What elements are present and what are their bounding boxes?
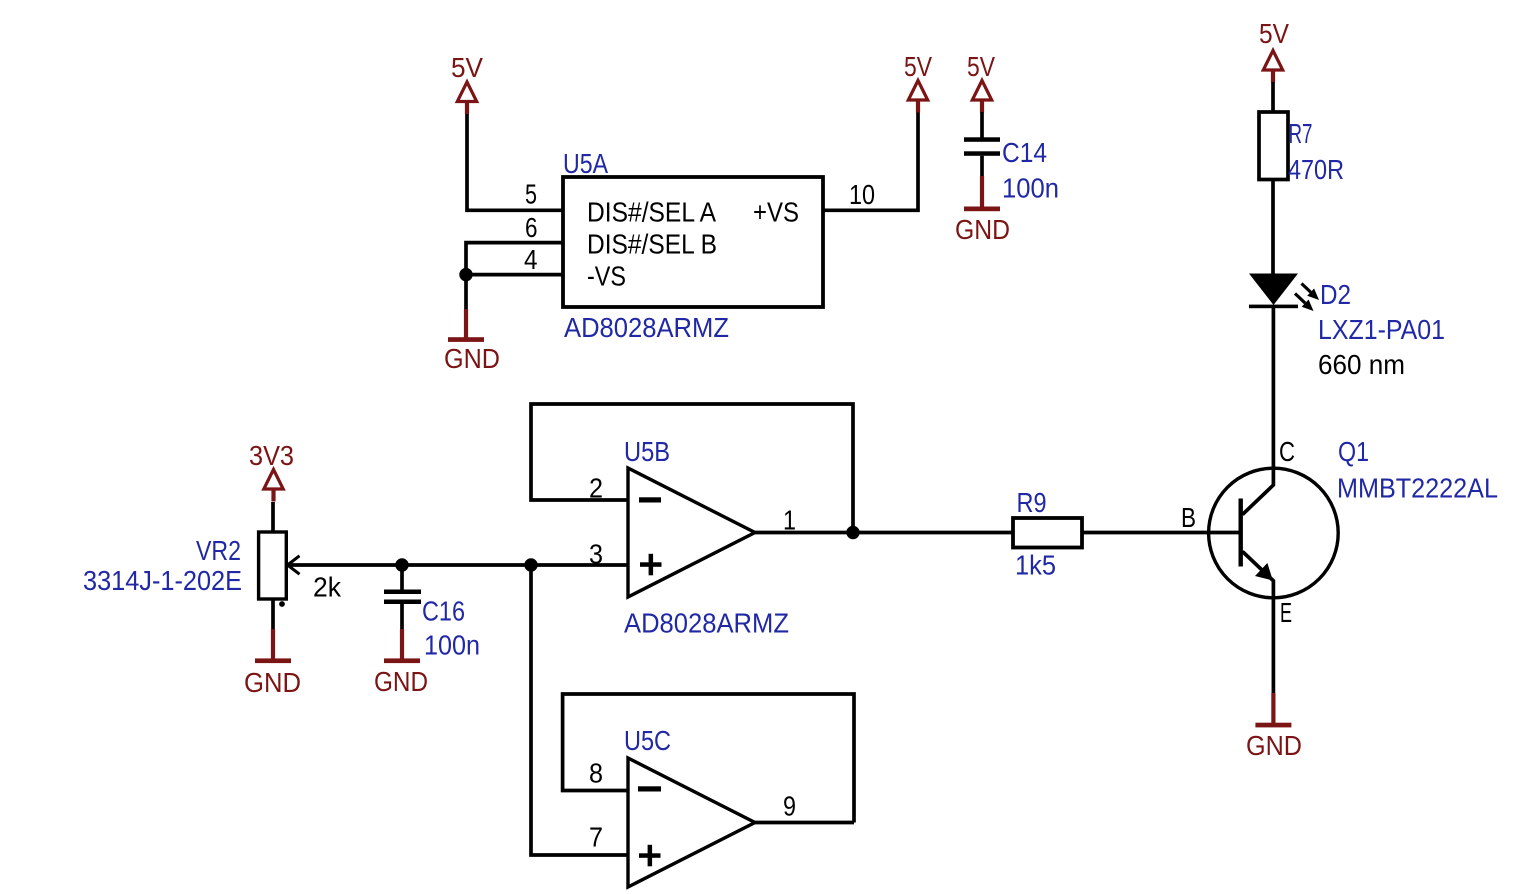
svg-text:3V3: 3V3 bbox=[249, 440, 294, 471]
svg-text:5V: 5V bbox=[451, 52, 484, 83]
svg-text:B: B bbox=[1181, 502, 1196, 533]
svg-text:-VS: -VS bbox=[587, 261, 626, 292]
svg-text:10: 10 bbox=[849, 179, 875, 210]
svg-text:2: 2 bbox=[589, 473, 603, 504]
svg-text:1k5: 1k5 bbox=[1015, 550, 1056, 581]
svg-text:E: E bbox=[1280, 597, 1292, 628]
svg-text:660 nm: 660 nm bbox=[1318, 349, 1405, 380]
svg-text:C: C bbox=[1279, 436, 1295, 467]
svg-text:5: 5 bbox=[525, 179, 537, 210]
svg-text:2k: 2k bbox=[313, 572, 341, 603]
svg-text:R7: R7 bbox=[1289, 118, 1313, 149]
svg-text:GND: GND bbox=[955, 214, 1010, 245]
svg-text:U5B: U5B bbox=[624, 436, 670, 467]
svg-text:MMBT2222AL: MMBT2222AL bbox=[1337, 473, 1498, 504]
svg-text:C14: C14 bbox=[1002, 137, 1047, 168]
svg-text:AD8028ARMZ: AD8028ARMZ bbox=[624, 608, 789, 639]
svg-text:GND: GND bbox=[444, 343, 500, 374]
svg-text:9: 9 bbox=[783, 791, 796, 822]
svg-text:1: 1 bbox=[783, 505, 796, 536]
svg-text:U5C: U5C bbox=[624, 725, 671, 756]
svg-text:6: 6 bbox=[525, 212, 538, 243]
svg-text:GND: GND bbox=[1246, 730, 1302, 761]
svg-text:100n: 100n bbox=[1002, 173, 1059, 204]
svg-text:4: 4 bbox=[524, 244, 538, 275]
svg-text:3314J-1-202E: 3314J-1-202E bbox=[83, 565, 242, 596]
svg-text:Q1: Q1 bbox=[1338, 436, 1369, 467]
svg-text:U5A: U5A bbox=[563, 148, 609, 179]
svg-text:VR2: VR2 bbox=[196, 535, 241, 566]
svg-text:AD8028ARMZ: AD8028ARMZ bbox=[564, 312, 729, 343]
svg-text:R9: R9 bbox=[1017, 487, 1047, 518]
svg-text:470R: 470R bbox=[1288, 154, 1344, 185]
svg-text:5V: 5V bbox=[1259, 18, 1290, 49]
svg-text:8: 8 bbox=[589, 758, 603, 789]
svg-text:GND: GND bbox=[244, 667, 301, 698]
svg-text:D2: D2 bbox=[1320, 279, 1351, 310]
svg-text:DIS#/SEL B: DIS#/SEL B bbox=[587, 229, 717, 260]
svg-text:7: 7 bbox=[589, 822, 603, 853]
svg-text:100n: 100n bbox=[424, 630, 480, 661]
svg-text:5V: 5V bbox=[967, 51, 996, 82]
svg-text:DIS#/SEL A: DIS#/SEL A bbox=[587, 197, 717, 228]
svg-text:+VS: +VS bbox=[753, 197, 799, 228]
svg-text:LXZ1-PA01: LXZ1-PA01 bbox=[1318, 314, 1445, 345]
svg-text:GND: GND bbox=[374, 666, 428, 697]
svg-text:5V: 5V bbox=[904, 51, 933, 82]
svg-text:C16: C16 bbox=[422, 596, 465, 627]
